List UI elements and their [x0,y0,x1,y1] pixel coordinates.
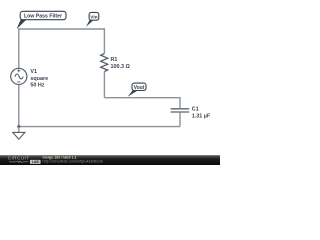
svg-text:1.31 µF: 1.31 µF [192,113,211,119]
wire ground stub [18,127,20,133]
svg-text:R1: R1 [111,57,118,63]
svg-text:Vout: Vout [134,85,145,91]
capacitor C1 [171,109,190,112]
resistor R1 [101,54,108,72]
footer logo CircuitLab [8,156,41,164]
wire left branch upper (corner to source top) [18,28,20,68]
svg-text:square: square [30,76,48,82]
label C1 value [192,106,211,119]
wire capacitor bottom lead [179,113,181,127]
svg-text:Low Pass Filter: Low Pass Filter [24,13,62,19]
wire right branch upper (corner to resistor top) [103,28,105,53]
wire bottom horizontal ground net [19,126,180,128]
svg-text:C1: C1 [192,106,199,112]
footer bar [0,155,220,165]
voltage source V1 [11,68,27,84]
label V1 value [30,69,48,89]
svg-text:Vin: Vin [90,14,97,19]
wire capacitor top lead [179,97,181,108]
wire top horizontal Vin net [19,28,105,30]
svg-text:50 Hz: 50 Hz [30,83,44,89]
wire left branch lower (source bottom to ground junction) [18,85,20,127]
svg-text:CIRCUIT: CIRCUIT [8,156,30,161]
svg-text:100.3 Ω: 100.3 Ω [111,64,131,70]
node label callout Vout [128,83,146,97]
label R1 value [111,57,131,70]
node junction ground net [17,125,20,128]
svg-text:http://circuitlab.com/c/5pu4e6: http://circuitlab.com/c/5pu4e63bc2k [43,160,104,164]
node label callout Vin [86,12,99,26]
ground [13,132,25,139]
wire right branch lower (resistor bottom to Vout corner) [103,72,105,98]
svg-text:V1: V1 [30,69,37,75]
svg-text:LAB: LAB [32,160,40,164]
wire Vout horizontal [104,97,180,99]
footer title text [43,156,104,164]
node label callout Low Pass Filter [17,11,66,29]
